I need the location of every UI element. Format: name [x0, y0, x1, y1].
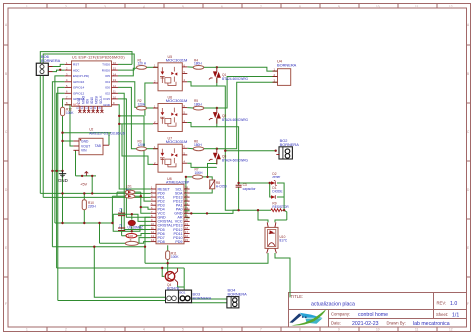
svg-text:BTA24-600CWRG: BTA24-600CWRG [222, 159, 248, 163]
svg-text:control home: control home [358, 312, 388, 318]
svg-text:lab mecatronica: lab mecatronica [413, 321, 450, 327]
svg-text:GPIO14: GPIO14 [73, 86, 84, 90]
svg-text:Sheet:: Sheet: [436, 312, 448, 317]
svg-text:GPIO12: GPIO12 [73, 92, 84, 96]
svg-text:RXD0: RXD0 [102, 68, 111, 72]
svg-text:EN(CH-PD): EN(CH-PD) [73, 74, 89, 78]
svg-text:actualizacion placa: actualizacion placa [311, 302, 355, 308]
svg-text:REV:: REV: [437, 301, 447, 306]
svg-text:DIODE: DIODE [272, 190, 282, 194]
svg-text:BORNERA: BORNERA [193, 296, 212, 300]
svg-text:F: F [5, 302, 7, 306]
svg-text:TXD0: TXD0 [102, 63, 110, 67]
svg-text:E: E [467, 246, 469, 250]
svg-text:zener: zener [272, 175, 281, 179]
svg-text:Date:: Date: [331, 321, 341, 326]
svg-text:BTA24-600CWRG: BTA24-600CWRG [222, 118, 248, 122]
svg-text:7: 7 [260, 328, 262, 332]
svg-text:BORNERA: BORNERA [41, 58, 61, 63]
svg-text:BO1: BO1 [180, 291, 186, 295]
svg-text:8: 8 [299, 328, 301, 332]
svg-text:6: 6 [221, 328, 223, 332]
svg-text:9: 9 [338, 5, 340, 9]
svg-text:TITLE:: TITLE: [291, 294, 304, 299]
svg-text:AMS1117-3.3_C6186-US: AMS1117-3.3_C6186-US [89, 131, 125, 135]
svg-text:C2: C2 [119, 224, 123, 228]
svg-text:MOC3031M: MOC3031M [166, 98, 188, 103]
svg-text:B: B [467, 72, 469, 76]
svg-text:CS0: CS0 [77, 98, 81, 104]
svg-text:TAB: TAB [95, 144, 102, 148]
svg-text:IO0: IO0 [105, 86, 110, 90]
svg-text:IO10: IO10 [90, 97, 94, 104]
svg-text:10KH: 10KH [195, 171, 204, 175]
svg-text:1/1: 1/1 [452, 312, 459, 318]
svg-text:6: 6 [221, 5, 223, 9]
svg-text:IO2: IO2 [105, 92, 110, 96]
svg-text:A-C050: A-C050 [216, 185, 227, 189]
svg-text:1.0: 1.0 [450, 301, 457, 307]
svg-text:X: X [130, 238, 132, 242]
svg-text:+5V: +5V [80, 182, 88, 187]
svg-text:Company:: Company: [331, 312, 350, 317]
svg-text:12: 12 [449, 5, 453, 9]
svg-text:100K: 100K [66, 111, 74, 115]
svg-text:MOC3031M: MOC3031M [166, 58, 188, 63]
svg-text:3: 3 [104, 5, 106, 9]
svg-text:GND: GND [81, 139, 89, 143]
svg-text:RST: RST [73, 63, 79, 67]
svg-text:D: D [467, 188, 470, 192]
svg-text:817C: 817C [280, 239, 288, 243]
svg-text:BORNERA: BORNERA [280, 142, 300, 147]
svg-text:100K: 100K [171, 255, 179, 259]
svg-text:5: 5 [182, 5, 184, 9]
svg-text:2021-02-23: 2021-02-23 [352, 321, 379, 327]
svg-text:220H: 220H [88, 205, 96, 209]
svg-text:PD9: PD9 [175, 240, 182, 244]
svg-text:IO4: IO4 [105, 80, 110, 84]
svg-text:11: 11 [415, 5, 419, 9]
svg-text:BTA24-600CWRG: BTA24-600CWRG [222, 77, 248, 81]
svg-text:MOSI: MOSI [95, 96, 99, 104]
svg-text:B: B [5, 72, 7, 76]
svg-text:7: 7 [260, 5, 262, 9]
svg-text:MISO: MISO [81, 95, 85, 104]
svg-text:SCLK: SCLK [99, 95, 103, 104]
svg-text:12: 12 [449, 328, 453, 332]
svg-text:VIN: VIN [81, 149, 87, 153]
svg-text:GND: GND [103, 103, 111, 107]
svg-text:U1 ESP-12F(ESP8266MOD): U1 ESP-12F(ESP8266MOD) [72, 55, 125, 59]
svg-text:10: 10 [376, 328, 380, 332]
svg-text:1: 1 [26, 5, 28, 9]
svg-text:C: C [467, 130, 470, 134]
svg-text:4: 4 [143, 5, 145, 9]
svg-text:GND: GND [58, 178, 68, 183]
svg-text:1: 1 [26, 328, 28, 332]
svg-text:4: 4 [143, 328, 145, 332]
svg-text:9: 9 [338, 328, 340, 332]
svg-text:5: 5 [182, 328, 184, 332]
svg-text:GPIO16: GPIO16 [73, 80, 84, 84]
svg-text:IO5: IO5 [105, 74, 110, 78]
svg-text:MOC3031M: MOC3031M [166, 139, 188, 144]
svg-text:U9 16MHZ: U9 16MHZ [128, 226, 143, 230]
svg-text:PD8: PD8 [158, 240, 165, 244]
svg-text:IO15: IO15 [103, 97, 110, 101]
svg-text:F: F [467, 302, 469, 306]
svg-text:BORNERA: BORNERA [277, 63, 297, 68]
svg-text:Drawn By:: Drawn By: [387, 321, 406, 326]
svg-text:capacitor: capacitor [243, 187, 257, 191]
svg-text:10: 10 [376, 5, 380, 9]
svg-text:3: 3 [104, 328, 106, 332]
svg-text:11: 11 [415, 328, 419, 332]
svg-text:IO9: IO9 [86, 99, 90, 104]
svg-text:ADC: ADC [73, 68, 80, 72]
svg-text:8: 8 [299, 5, 301, 9]
svg-text:E: E [5, 246, 7, 250]
svg-text:2: 2 [65, 328, 67, 332]
svg-text:BORNERA: BORNERA [228, 292, 248, 297]
svg-text:A: A [467, 23, 470, 27]
svg-text:2: 2 [65, 5, 67, 9]
svg-text:C1: C1 [119, 208, 123, 212]
